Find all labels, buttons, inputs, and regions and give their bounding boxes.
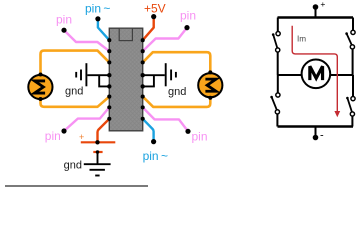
node dot pin top-right bbox=[184, 25, 189, 30]
wire +5V (to pin 16) bbox=[143, 17, 154, 41]
bottom divider line bbox=[5, 185, 148, 187]
wire violet top-left (pin label to pin 2) bbox=[64, 30, 109, 51]
svg-text:+5V: +5V bbox=[144, 1, 166, 15]
IC chip U1 body bbox=[109, 28, 142, 131]
svg-text:pin: pin bbox=[45, 129, 61, 143]
switch S1 upper-left bbox=[272, 31, 280, 52]
node dot pin~ bottom bbox=[151, 139, 156, 144]
H-bridge right rail segments bbox=[351, 18, 354, 127]
wire amber right motor bottom (pin 11 to motor M2 -) bbox=[143, 97, 211, 107]
wire violet bottom-right (pin 10 to pin label) bbox=[143, 107, 188, 131]
wire violet top-right (pin label to pin 15) bbox=[143, 28, 187, 52]
motor M2 right bbox=[198, 70, 222, 99]
IC pin dots right bbox=[141, 38, 145, 121]
wire vermilion battery (pin 8 down to supply) bbox=[98, 119, 110, 143]
svg-text:gnd: gnd bbox=[168, 86, 186, 98]
wire black left gnd bracket (pins 4,5) bbox=[87, 75, 109, 86]
node dot pin bottom-left bbox=[61, 128, 66, 133]
battery - terminal bottom bbox=[313, 127, 324, 142]
svg-text:-: - bbox=[320, 129, 324, 141]
svg-text:Im: Im bbox=[297, 34, 306, 43]
svg-text:pin: pin bbox=[192, 129, 208, 143]
wire amber right motor top (pin 14 to motor M2 +) bbox=[143, 52, 211, 72]
wire amber left motor bottom (pin 6 to motor M1 -) bbox=[41, 97, 110, 107]
svg-text:+: + bbox=[79, 132, 84, 142]
gnd symbol left (sideways ground) bbox=[76, 63, 86, 86]
H-bridge left rail segments bbox=[276, 18, 278, 127]
switch S4 lower-right bbox=[346, 97, 355, 117]
H-bridge top rail bbox=[278, 16, 354, 19]
node dot pin bottom-right bbox=[185, 129, 190, 134]
svg-text:+: + bbox=[320, 0, 325, 9]
node dot pin top-left bbox=[61, 28, 66, 33]
IC chip notch bbox=[119, 28, 132, 40]
node dot +5V bbox=[151, 14, 156, 19]
wire violet bottom-left (pin label to pin 7) bbox=[64, 107, 109, 131]
IC pin dots left bbox=[107, 38, 111, 121]
H-bridge bottom rail bbox=[278, 125, 354, 128]
wire cyan top (pin~ to pin 1) bbox=[98, 19, 109, 40]
motor M1 left bbox=[28, 73, 52, 102]
svg-text:pin: pin bbox=[180, 9, 196, 23]
battery + terminal top bbox=[313, 0, 326, 18]
svg-text:gnd: gnd bbox=[64, 160, 82, 172]
current arrowhead bbox=[334, 111, 340, 117]
wire cyan bottom (pin 9 to pin~ label) bbox=[143, 119, 154, 142]
current path Im (red) bbox=[292, 26, 337, 112]
H-bridge motor rail bbox=[278, 74, 354, 76]
svg-text:pin: pin bbox=[56, 13, 72, 27]
wire amber left motor top (pin 3 to motor M1 +) bbox=[41, 51, 110, 75]
ground symbol bottom bbox=[84, 152, 111, 176]
svg-text:pin ~: pin ~ bbox=[143, 149, 168, 163]
node dot pin~ top bbox=[95, 16, 100, 21]
gnd symbol right (sideways ground) bbox=[166, 63, 176, 86]
battery B1 plates bbox=[81, 140, 116, 154]
motor M in H-bridge bbox=[302, 60, 331, 89]
switch S2 upper-right bbox=[345, 30, 355, 49]
wire black right gnd bracket (pins 12,13) bbox=[143, 75, 165, 86]
switch S3 lower-left bbox=[270, 93, 280, 114]
svg-text:pin ~: pin ~ bbox=[85, 1, 110, 15]
svg-text:gnd: gnd bbox=[65, 86, 83, 98]
